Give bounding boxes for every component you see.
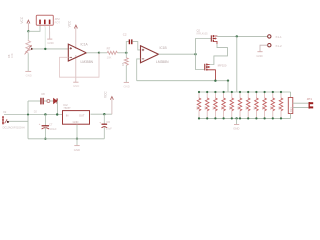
wire IC1B output [159, 53, 196, 55]
svg-text:X1-1: X1-1 [275, 35, 282, 39]
ground GND (resistor bank) [233, 125, 239, 131]
wire current sense line [137, 80, 228, 82]
ground GND (under potentiometer) [25, 71, 32, 77]
svg-text:IRFL4105: IRFL4105 [197, 32, 209, 35]
node R18 top junction [264, 91, 266, 93]
wire pot bottom to ground [27, 53, 29, 71]
svg-text:C6: C6 [106, 120, 110, 124]
resistor R10 [197, 92, 201, 118]
wire R21 to JP1 pin2 [293, 106, 309, 108]
svg-text:100uF: 100uF [49, 127, 57, 131]
connector X2 (DC jack) [2, 110, 24, 129]
svg-text:GND: GND [124, 84, 130, 88]
svg-text:IRF520: IRF520 [218, 64, 227, 68]
pad X1-2 [268, 44, 282, 49]
wire regulator gnd pin [76, 124, 78, 139]
svg-text:GND: GND [73, 84, 79, 88]
node gate branch junction [194, 53, 196, 55]
node Q1 source junction [214, 80, 216, 82]
node C7 junction [44, 113, 46, 115]
resistor R14 [230, 92, 234, 118]
wire Q2 drain rail to pad X1-1 [217, 35, 268, 37]
resistor R21 (box style) [288, 92, 293, 118]
svg-text:C8: C8 [41, 92, 45, 96]
node R10 bottom junction [198, 117, 200, 119]
resistor R19 [271, 92, 275, 118]
node R20 bottom junction [280, 117, 282, 119]
node R18 bottom junction [264, 117, 266, 119]
wire bank rail to ground [236, 118, 238, 124]
svg-text:10K: 10K [107, 56, 112, 60]
node IC1A output junction [98, 52, 100, 54]
node R12 bottom junction [214, 117, 216, 119]
node R14 top junction [231, 91, 233, 93]
wire to Q1 gate [196, 54, 205, 69]
node R15 top junction [239, 91, 241, 93]
svg-text:LM358N: LM358N [156, 60, 169, 64]
wire VCC to JP2 pin1 [28, 25, 40, 31]
svg-text:+: + [39, 122, 41, 126]
svg-text:GND: GND [26, 73, 32, 77]
svg-text:10uF: 10uF [106, 127, 112, 131]
svg-text:VCC: VCC [104, 91, 108, 98]
svg-text:GND: GND [233, 127, 239, 131]
node D2 junction [56, 113, 58, 115]
wire op-amp V- pin to ground [75, 55, 77, 82]
svg-text:LM358N: LM358N [81, 60, 94, 64]
capacitor C8 [40, 92, 47, 104]
wire VCC to potentiometer top [27, 31, 29, 39]
node R7/C2/R6 junction [125, 52, 127, 54]
svg-text:GND: GND [74, 148, 80, 152]
transistor Q1 [205, 64, 227, 81]
connector JP1 [307, 97, 313, 109]
svg-text:C2: C2 [123, 32, 127, 36]
wire R21 to JP1 pin1 [293, 102, 309, 104]
svg-text:+: + [99, 120, 101, 124]
wire pot wiper to op-amp input [32, 48, 68, 50]
pad X1-1 [268, 35, 282, 40]
node R20 top junction [280, 91, 282, 93]
svg-text:VCC: VCC [68, 20, 72, 27]
svg-text:R21: R21 [289, 107, 293, 112]
node R17 top junction [255, 91, 257, 93]
power symbol VCC (op-amp IC1A) [68, 20, 78, 49]
svg-text:IC1A: IC1A [81, 42, 89, 46]
wire junction up to C2 [126, 42, 129, 53]
resistor R13 [221, 92, 225, 118]
resistor R11 [205, 92, 209, 118]
svg-text:OUT: OUT [79, 113, 85, 117]
wire X1-2 to ground [260, 45, 268, 51]
svg-text:JP2: JP2 [55, 17, 61, 21]
node VCC-junction [27, 30, 29, 32]
wire regulator output [91, 113, 112, 115]
node R19 bottom junction [272, 117, 274, 119]
wire jack plus to regulator [4, 114, 63, 116]
wire drain rail down to resistor bank [236, 36, 238, 92]
node regulator output junction [103, 113, 105, 115]
wire Q2 source link to Q1 drain [210, 44, 228, 65]
svg-text:GND: GND [47, 41, 53, 45]
svg-text:VCC: VCC [20, 16, 24, 23]
capacitor C7 [39, 115, 57, 139]
node R16 top junction [247, 91, 249, 93]
connector JP2 [36, 15, 60, 25]
resistor R20 [279, 92, 283, 118]
svg-text:IN: IN [66, 113, 69, 117]
node R12 top junction [214, 91, 216, 93]
node branch crossing [27, 114, 29, 116]
voltage regulator IC2 [63, 103, 90, 124]
wire IC1B inverting input from sense line [137, 59, 141, 81]
svg-text:X1-2: X1-2 [275, 44, 282, 48]
potentiometer R8 [7, 40, 33, 58]
svg-text:POT: POT [55, 21, 61, 25]
wire feedback loop IC1A [60, 53, 100, 77]
capacitor C6 [99, 114, 112, 139]
op-amp U IC1B [141, 46, 170, 64]
wire C8/LED branch vertical [27, 101, 29, 121]
wire D2 down to plus rail [56, 101, 58, 115]
svg-text:R7: R7 [107, 47, 111, 51]
node R10 top junction [198, 91, 200, 93]
ground GND (under JP2 pin3) [47, 39, 53, 45]
svg-text:DC1JACKPJ102AH: DC1JACKPJ102AH [3, 126, 25, 129]
node R11 top junction [206, 91, 208, 93]
svg-text:C7: C7 [49, 122, 53, 126]
node sense line end junction [227, 80, 229, 82]
wire JP2 pin3 down [49, 25, 51, 39]
node bank gnd junction [235, 117, 237, 119]
node R17 bottom junction [255, 117, 257, 119]
ground GND (X1-2) [256, 52, 262, 58]
svg-text:GND: GND [73, 120, 79, 124]
node signal junction [44, 48, 46, 50]
ground GND (under R6) [124, 82, 130, 88]
wire sense line down to bank rail [227, 81, 229, 92]
ground GND (power rail) [74, 146, 80, 152]
svg-text:JP1: JP1 [307, 97, 313, 101]
wire C8 branch horizontal [28, 100, 40, 102]
wire bottom ground rail [28, 138, 104, 140]
resistor R6 (vertical) [121, 53, 128, 82]
diode D2 [50, 98, 57, 103]
svg-text:X2: X2 [3, 110, 7, 114]
wire op-amp IC1A output [86, 52, 99, 54]
resistor R15 [238, 92, 242, 118]
svg-text:GND: GND [256, 54, 262, 58]
capacitor C2 [123, 32, 133, 44]
resistor R16 [246, 92, 250, 118]
transistor Q2 [197, 28, 218, 44]
node regulator gnd junction [76, 138, 78, 140]
node R11 bottom junction [206, 117, 208, 119]
node C7 bottom junction [44, 138, 46, 140]
svg-text:10K: 10K [10, 53, 14, 58]
wire C2 to op-amp IC1B input [132, 42, 140, 50]
wire JP2 pin2 to signal node [44, 25, 46, 49]
node R15 bottom junction [239, 117, 241, 119]
wire bank top rail [199, 91, 291, 93]
wire rail to ground symbol [76, 139, 78, 146]
op-amp U IC1A [68, 42, 93, 64]
svg-text:IC1B: IC1B [160, 46, 167, 50]
node R16 bottom junction [247, 117, 249, 119]
resistor R17 [254, 92, 258, 118]
resistor R12 [213, 92, 217, 118]
power symbol VCC (top-left) [20, 16, 30, 31]
wire jack return [9, 121, 28, 139]
ground GND (under op-amp IC1A) [73, 82, 79, 88]
power symbol VCC (regulator output) [104, 91, 114, 115]
pad ring (power indicator) [47, 100, 50, 103]
node R13 top junction [223, 91, 225, 93]
node R14 bottom junction [231, 117, 233, 119]
wire bank bottom rail [199, 117, 291, 119]
node R13 bottom junction [223, 117, 225, 119]
wire to Q2 gate [196, 39, 212, 55]
svg-text:7805T: 7805T [63, 106, 71, 110]
node drain rail junction [236, 35, 238, 37]
resistor R7 [99, 47, 126, 60]
resistor R18 [262, 92, 266, 118]
node R19 top junction [272, 91, 274, 93]
